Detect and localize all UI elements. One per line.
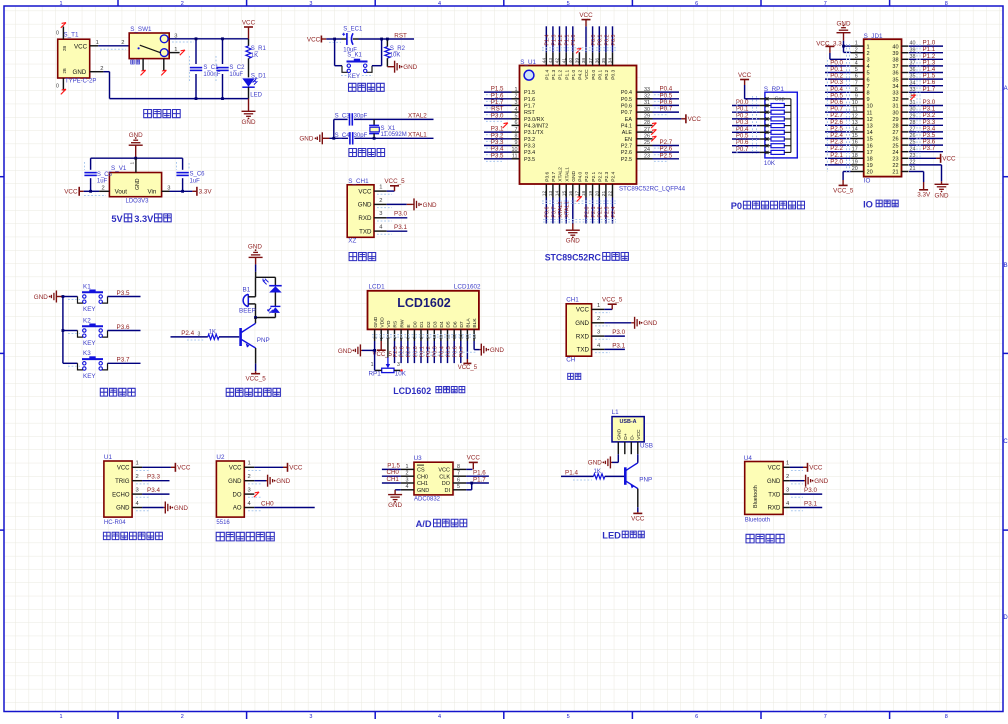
wire P0.6 to RP1 [732, 139, 760, 146]
svg-text:CH0: CH0 [261, 500, 274, 507]
capacitor C4 30pF [335, 132, 368, 144]
power port VCC JD1 pin23 [909, 154, 956, 163]
JD1 pin 12 [825, 112, 864, 119]
svg-text:P2.0: P2.0 [584, 207, 590, 218]
svg-text:S_K1: S_K1 [347, 53, 362, 59]
resistor RP1 element 6 [760, 137, 791, 141]
svg-text:VCC: VCC [584, 69, 590, 80]
svg-text:3: 3 [198, 332, 201, 338]
svg-text:31: 31 [892, 104, 898, 110]
svg-text:P4.2: P4.2 [578, 69, 584, 79]
power port 3.3V JD1 pin21 [909, 172, 931, 199]
svg-text:25: 25 [892, 143, 898, 149]
wire LCD pin 4 [393, 341, 399, 363]
svg-text:LDO3V3: LDO3V3 [125, 199, 149, 205]
svg-text:14: 14 [555, 190, 561, 196]
svg-text:K2: K2 [83, 317, 91, 324]
svg-text:GND: GND [358, 202, 372, 209]
svg-text:P3.6: P3.6 [545, 171, 551, 181]
svg-text:BLA: BLA [466, 318, 472, 328]
svg-text:34: 34 [608, 58, 614, 64]
svg-text:7: 7 [824, 714, 827, 719]
U1 pin 11 [484, 152, 520, 161]
svg-text:VCC: VCC [358, 188, 372, 195]
U1 pin 30 [637, 106, 680, 115]
svg-text:9: 9 [855, 94, 858, 100]
svg-text:VCC_5: VCC_5 [245, 376, 266, 383]
net label P3.1 serial [604, 342, 625, 349]
svg-text:25: 25 [644, 140, 650, 146]
svg-text:3: 3 [397, 362, 400, 368]
resistor RP1 element 8 [760, 150, 791, 154]
svg-text:VCC: VCC [738, 72, 752, 79]
svg-text:S_JD1: S_JD1 [864, 33, 883, 40]
svg-text:GND: GND [299, 136, 313, 143]
svg-text:S_C5: S_C5 [97, 172, 113, 178]
JD1 pin 9 [825, 92, 864, 99]
svg-text:P1.7: P1.7 [524, 104, 535, 110]
svg-text:D3: D3 [433, 321, 439, 328]
svg-text:GND: GND [276, 478, 290, 485]
svg-text:10: 10 [852, 100, 858, 106]
connector CH1 serial [566, 297, 610, 364]
U1 pin 43 [548, 26, 557, 65]
ground GND adc [388, 490, 402, 509]
svg-text:P3.0: P3.0 [491, 112, 504, 119]
power port VCC_5 alarm [245, 348, 266, 383]
net label P3.0 serial [604, 329, 625, 336]
svg-text:LCD1602: LCD1602 [397, 296, 451, 310]
wire LCD pin 5 [400, 341, 406, 363]
svg-text:KEY: KEY [83, 373, 96, 380]
svg-text:P4.0: P4.0 [578, 171, 584, 181]
svg-text:6: 6 [855, 74, 858, 80]
JD1 pin 21 [902, 166, 916, 172]
svg-text:18: 18 [852, 153, 858, 159]
MCU U1 STC89C52RC body [520, 59, 686, 193]
title download port [349, 253, 376, 261]
svg-text:RXD: RXD [768, 506, 781, 512]
net label CH1 adc [382, 476, 401, 483]
svg-text:18: 18 [581, 190, 587, 196]
svg-text:BLK: BLK [472, 318, 478, 328]
svg-text:4: 4 [438, 1, 441, 7]
svg-text:STC89C52RC: STC89C52RC [545, 252, 602, 262]
svg-text:1: 1 [59, 714, 62, 719]
svg-text:LCD1602: LCD1602 [393, 386, 431, 396]
pin 0 shield bottom of T1 [56, 78, 66, 94]
svg-text:S_RP1: S_RP1 [764, 86, 784, 93]
svg-text:VCC: VCC [74, 43, 88, 50]
svg-text:XTAL1: XTAL1 [408, 131, 427, 138]
title dianyuan circuit [144, 110, 181, 118]
net label P3.1 bt [790, 500, 822, 507]
svg-text:3: 3 [406, 477, 409, 483]
svg-text:3: 3 [855, 54, 858, 60]
svg-text:33: 33 [892, 91, 898, 97]
svg-text:8: 8 [945, 1, 948, 7]
wire key right branch up [372, 38, 383, 66]
ground GND alarm [248, 244, 263, 278]
JD1 pin 36 [902, 66, 944, 73]
JD1 pin 23 [902, 153, 916, 159]
svg-text:P3.0: P3.0 [394, 211, 407, 218]
JD1 pin 32 [902, 94, 916, 101]
svg-text:2: 2 [786, 474, 789, 480]
svg-text:Bluetooth: Bluetooth [753, 485, 759, 508]
svg-text:5V: 5V [111, 214, 123, 224]
svg-text:22: 22 [608, 190, 614, 196]
svg-text:RS: RS [393, 320, 399, 328]
svg-text:27: 27 [644, 127, 650, 133]
net label XTAL2 [408, 113, 427, 120]
JD1 pin 10 [825, 99, 864, 106]
svg-text:8: 8 [457, 464, 460, 470]
switch SW1 [121, 26, 177, 64]
LCD dash artifacts [372, 335, 476, 356]
U1 pin 18 [581, 184, 590, 224]
power port VCC led [631, 489, 645, 523]
svg-text:13: 13 [852, 120, 858, 126]
svg-text:11: 11 [512, 154, 518, 160]
svg-text:S_C3: S_C3 [335, 113, 351, 119]
resistor R 1K base [171, 329, 240, 340]
U1 pin 37 [588, 26, 597, 65]
svg-text:P0.3: P0.3 [611, 69, 617, 79]
svg-text:36: 36 [595, 58, 601, 64]
svg-text:10: 10 [512, 147, 518, 153]
svg-text:BEEP: BEEP [239, 308, 256, 315]
svg-text:USB: USB [640, 443, 653, 450]
svg-text:PNP: PNP [639, 477, 652, 484]
LCD pin1 to ground [338, 341, 376, 356]
svg-text:XTAL2: XTAL2 [558, 167, 564, 182]
svg-text:0: 0 [56, 83, 59, 89]
wire LCD pin 14 [459, 341, 465, 363]
svg-text:VCC: VCC [579, 12, 593, 19]
net label P1.5 [382, 462, 401, 469]
svg-text:S_R2: S_R2 [390, 46, 406, 52]
svg-text:U1: U1 [104, 454, 113, 461]
net label P3.4 [142, 487, 169, 494]
svg-text:P1.2: P1.2 [558, 69, 564, 79]
svg-text:1: 1 [129, 162, 135, 165]
wire Vin to 3.3V [170, 190, 193, 192]
svg-text:D2: D2 [426, 321, 432, 328]
svg-text:GND: GND [588, 460, 602, 467]
svg-text:D+: D+ [623, 433, 629, 440]
svg-text:P0.0: P0.0 [591, 69, 597, 79]
U1 pin 8 [484, 132, 520, 141]
LCD pin2 VCC_5 [373, 341, 393, 358]
capacitor EC1 10uF polarized [342, 26, 363, 53]
svg-text:GND: GND [228, 479, 242, 485]
svg-text:HC-R04: HC-R04 [104, 520, 126, 526]
svg-text:5: 5 [855, 67, 858, 73]
svg-text:S_D1: S_D1 [251, 73, 267, 79]
svg-text:P2.3: P2.3 [604, 207, 610, 218]
svg-text:2: 2 [136, 474, 139, 480]
svg-text:3: 3 [136, 488, 139, 494]
svg-text:38: 38 [581, 58, 587, 64]
svg-text:1K: 1K [594, 469, 601, 475]
U1 pin 6 [503, 120, 520, 128]
svg-text:P3.0: P3.0 [612, 329, 625, 336]
svg-text:14: 14 [867, 130, 873, 136]
JD1 pin 2 [851, 47, 864, 53]
svg-text:VCC: VCC [768, 466, 781, 472]
svg-text:17: 17 [852, 146, 858, 152]
svg-text:14: 14 [852, 127, 858, 133]
svg-text:S_CH1: S_CH1 [348, 178, 369, 185]
U1 pin 42 [555, 26, 564, 65]
ground GND bt [790, 475, 829, 487]
svg-text:4: 4 [406, 484, 409, 490]
svg-text:8: 8 [945, 714, 948, 719]
svg-text:5: 5 [867, 71, 870, 77]
svg-text:USB-A: USB-A [619, 419, 636, 425]
svg-text:7: 7 [855, 80, 858, 86]
svg-text:CLK: CLK [439, 474, 450, 480]
svg-text:U3: U3 [414, 455, 423, 462]
ground GND keys [34, 291, 63, 303]
svg-text:P0.2: P0.2 [604, 69, 610, 79]
svg-text:16: 16 [852, 140, 858, 146]
svg-text:P3.7: P3.7 [923, 145, 936, 152]
svg-text:S_C4: S_C4 [335, 133, 351, 139]
power port VCC_5 download [384, 178, 405, 191]
power port VCC bt [790, 463, 823, 472]
svg-text:GND: GND [423, 202, 437, 209]
svg-text:D4: D4 [439, 321, 445, 328]
svg-text:GND: GND [135, 178, 141, 190]
svg-text:3: 3 [597, 330, 600, 336]
svg-text:GND: GND [338, 348, 352, 355]
title P0 pullup [731, 201, 805, 211]
svg-text:VCC: VCC [438, 468, 450, 474]
svg-text:P0.4: P0.4 [621, 90, 632, 96]
svg-text:VCC: VCC [942, 156, 956, 163]
svg-text:S_C2: S_C2 [229, 65, 245, 71]
module U1 HC-R04 [104, 454, 150, 526]
svg-text:S_SW1: S_SW1 [130, 26, 152, 33]
svg-text:P3.5: P3.5 [524, 157, 535, 163]
svg-text:P3.5: P3.5 [117, 290, 130, 297]
svg-text:GND: GND [403, 64, 417, 71]
svg-text:35: 35 [892, 77, 898, 83]
svg-text:23: 23 [892, 157, 898, 163]
svg-text:34: 34 [892, 84, 898, 90]
svg-text:IO: IO [863, 200, 873, 210]
svg-text:P2.3: P2.3 [604, 171, 610, 181]
title reset circuit [349, 83, 385, 91]
svg-text:8: 8 [867, 91, 870, 97]
svg-text:D0: D0 [413, 321, 419, 328]
svg-text:LED: LED [602, 531, 621, 541]
svg-text:1: 1 [515, 87, 518, 93]
svg-text:30pF: 30pF [354, 133, 368, 139]
svg-text:21: 21 [601, 190, 607, 196]
svg-text:P3.4: P3.4 [147, 487, 160, 494]
svg-text:30pF: 30pF [354, 113, 368, 119]
wire bottom rail power circuit [110, 98, 249, 100]
U1 pin 44 [542, 26, 551, 65]
RP1 internal bus [790, 99, 792, 153]
svg-text:P0.7: P0.7 [621, 110, 632, 116]
resistor R2 10K [385, 38, 406, 67]
resistor RP1 element 5 [760, 130, 791, 134]
svg-text:TXD: TXD [577, 347, 590, 354]
module U4 Bluetooth [744, 455, 803, 524]
LED D upper [263, 277, 282, 306]
svg-text:P0: P0 [731, 201, 742, 211]
svg-text:19: 19 [852, 160, 858, 166]
ground GND above LDO [129, 132, 143, 158]
svg-text:P3.1: P3.1 [394, 224, 407, 231]
net label P3.1 download [387, 224, 408, 231]
JD1 pin 1 [851, 41, 864, 47]
JD1 pin 7 [825, 79, 864, 86]
net label CH0 adc [382, 469, 401, 476]
svg-text:GND: GND [814, 478, 828, 485]
svg-text:26: 26 [644, 134, 650, 140]
capacitor C3 30pF [335, 113, 368, 125]
svg-text:P3.5: P3.5 [491, 152, 504, 159]
svg-text:2: 2 [379, 198, 382, 204]
svg-text:5: 5 [515, 114, 518, 120]
svg-text:P2.0: P2.0 [584, 171, 590, 181]
SW1 pin1 stub with no-ERC [169, 50, 185, 55]
U1 pin 23 [637, 152, 680, 161]
svg-text:39: 39 [575, 58, 581, 64]
svg-text:STC89C52RC_LQFP44: STC89C52RC_LQFP44 [619, 186, 686, 193]
potentiometer RP1 10K [369, 341, 407, 377]
JD1 pin 22 [902, 160, 916, 166]
wire LCD pin 10 [433, 341, 439, 363]
svg-text:P1.4: P1.4 [545, 69, 551, 79]
U1 pin 5 [484, 112, 520, 121]
crystal X1 11.0592M [369, 119, 407, 139]
no-ERC on DO [254, 492, 259, 497]
U1 pin 31 [637, 99, 680, 108]
svg-text:P1.7: P1.7 [473, 476, 486, 483]
wire keys left bus [62, 295, 65, 363]
svg-text:10K: 10K [395, 370, 407, 377]
power port VCC_5 serial [602, 297, 623, 310]
wire VCC to RST net [326, 39, 414, 42]
svg-text:GND: GND [373, 316, 379, 327]
module U2 5516 [216, 454, 262, 526]
JD1 pin 40 [902, 40, 944, 47]
svg-text:26: 26 [892, 137, 898, 143]
U1 pin 40 [568, 26, 577, 65]
SW1 bottom pins with no-ERC [141, 59, 167, 76]
svg-text:16: 16 [867, 143, 873, 149]
wire left branch down to key K1 [335, 39, 342, 66]
svg-text:D-: D- [629, 434, 635, 440]
svg-text:Vin: Vin [147, 189, 156, 196]
svg-text:P3.1: P3.1 [612, 342, 625, 349]
svg-text:1K: 1K [209, 329, 216, 335]
LCD pin16 to ground right [474, 341, 504, 356]
svg-text:VO: VO [386, 320, 392, 327]
JD1 pin 11 [825, 106, 864, 113]
svg-text:4: 4 [515, 107, 518, 113]
svg-text:B1: B1 [243, 286, 251, 293]
svg-text:VDD: VDD [379, 317, 385, 328]
svg-text:44: 44 [542, 58, 548, 64]
svg-text:11: 11 [867, 110, 873, 116]
U1 pin 21 [601, 184, 610, 224]
svg-text:GND: GND [490, 347, 504, 354]
svg-text:37: 37 [588, 58, 594, 64]
svg-text:10K: 10K [390, 52, 401, 58]
RP1 dash artifacts [737, 96, 757, 154]
svg-text:P0.7: P0.7 [736, 146, 749, 153]
capacitor C1 100nF [190, 39, 221, 99]
transistor Q2 PNP led [625, 454, 652, 488]
resistor RP1 element 1 [760, 104, 791, 108]
svg-text:RST: RST [524, 110, 535, 116]
svg-text:11: 11 [852, 107, 858, 113]
svg-text:0: 0 [56, 30, 59, 36]
U1 top dash artifacts [542, 48, 616, 51]
svg-text:P3.6: P3.6 [545, 207, 551, 218]
svg-text:D5: D5 [446, 321, 452, 328]
svg-text:U2: U2 [216, 454, 225, 461]
wire SW1 pin3 to VCC rail [169, 39, 248, 42]
svg-text:1: 1 [867, 44, 870, 50]
title keys [100, 388, 135, 396]
svg-text:28: 28 [644, 120, 650, 126]
power port VCC adc [466, 455, 480, 470]
wire P0.2 to RP1 [732, 112, 760, 119]
svg-text:P0.0: P0.0 [591, 35, 597, 46]
svg-text:A: A [1004, 86, 1008, 92]
svg-text:10uF: 10uF [229, 72, 243, 78]
svg-text:EA: EA [625, 117, 633, 123]
svg-text:40: 40 [892, 44, 898, 50]
svg-text:P1.1: P1.1 [564, 69, 570, 79]
RP1 common pin row [760, 97, 791, 100]
svg-text:K3: K3 [83, 350, 91, 357]
svg-text:4: 4 [867, 64, 870, 70]
svg-text:GND: GND [643, 320, 657, 327]
svg-text:15: 15 [867, 137, 873, 143]
svg-text:GND: GND [174, 505, 188, 512]
svg-text:CH1: CH1 [387, 476, 400, 483]
svg-text:3: 3 [786, 488, 789, 494]
svg-text:29: 29 [892, 117, 898, 123]
title LED lamp [602, 531, 644, 541]
button K3 [63, 350, 141, 380]
svg-text:P4.1: P4.1 [621, 124, 632, 130]
svg-text:20: 20 [867, 170, 873, 176]
svg-text:VCC: VCC [688, 116, 702, 123]
svg-text:1: 1 [786, 461, 789, 467]
svg-text:15: 15 [561, 190, 567, 196]
svg-text:XZ: XZ [348, 237, 356, 244]
svg-text:13: 13 [867, 124, 873, 130]
svg-text:XTAL1: XTAL1 [564, 167, 570, 182]
title serial [568, 373, 581, 379]
wire LDO top rail [91, 157, 183, 160]
svg-text:P2.5: P2.5 [621, 157, 632, 163]
svg-text:38: 38 [892, 58, 898, 64]
net label P3.0 download [387, 211, 408, 218]
svg-text:7: 7 [824, 1, 827, 7]
svg-text:ADC0832: ADC0832 [414, 497, 441, 503]
